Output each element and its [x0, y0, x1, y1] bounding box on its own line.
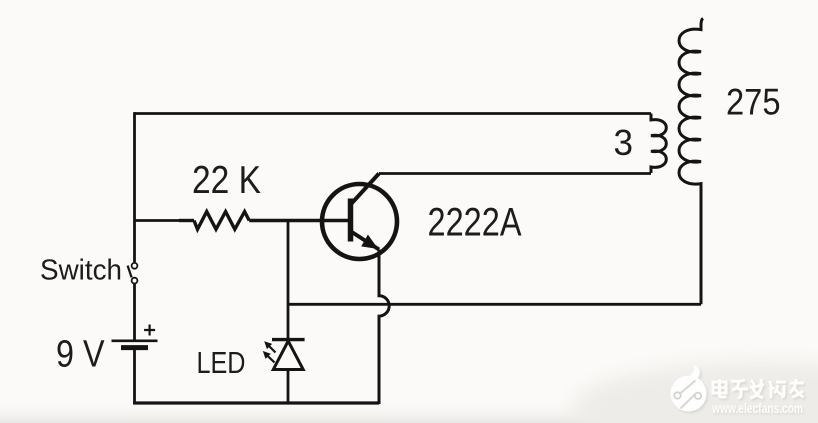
wire: resistor to transistor base: [249, 219, 348, 222]
svg-text:3: 3: [614, 122, 634, 163]
svg-text:Switch: Switch: [40, 254, 122, 286]
transistor collector diagonal: [352, 174, 380, 204]
LED cathode bar: [272, 338, 305, 341]
wire: LED branch vertical upper (base node down to LED): [287, 221, 290, 339]
transistor base bar: [348, 199, 354, 242]
svg-text:LED: LED: [197, 345, 246, 380]
LED triangle: [273, 341, 303, 370]
watermark text 电子发烧友 (approximated strokes): [713, 379, 806, 400]
resistor R1 22K zigzag: [194, 212, 249, 230]
switch contact circle top: [132, 263, 138, 269]
transformer primary coil (3 turns): [651, 114, 666, 174]
wire: base node to secondary coil bottom: [288, 303, 701, 306]
wire: base branch from left rail to resistor: [135, 219, 180, 222]
switch blade: [128, 266, 132, 278]
transformer secondary coil (275 turns): [679, 18, 703, 304]
transistor emitter arrowhead: [361, 235, 378, 250]
switch contact circle bottom: [132, 278, 138, 284]
wire: top rail from left rail to primary coil top: [135, 112, 652, 115]
wire: LED branch vertical lower (LED to bottom rail): [287, 370, 290, 403]
svg-text:275: 275: [726, 80, 781, 122]
wire: left rail battery to bottom rail: [133, 350, 136, 404]
LED emission arrow 2: [266, 354, 275, 362]
wire: left rail upper (top rail to switch): [133, 112, 136, 262]
svg-text:www.elecfans.com: www.elecfans.com: [711, 400, 803, 416]
wire: collector to primary coil bottom: [379, 172, 651, 175]
svg-text:2222A: 2222A: [428, 201, 522, 245]
wire: left rail between switch and battery: [133, 284, 136, 340]
transistor emitter diagonal: [351, 232, 379, 250]
battery negative plate: [121, 345, 148, 350]
transistor Q1 2222A: [322, 174, 397, 260]
battery positive plate: [112, 339, 158, 342]
svg-text:9 V: 9 V: [56, 334, 105, 376]
LED D1: [263, 340, 305, 370]
battery plus sign: [144, 325, 155, 336]
wire: emitter vertical with hop over node wire: [379, 250, 389, 405]
LED emission arrow 1: [268, 345, 276, 353]
transistor circle: [322, 184, 397, 259]
battery B1 9V: [112, 325, 158, 348]
svg-text:22 K: 22 K: [192, 159, 261, 202]
wire: bottom rail: [133, 401, 379, 404]
switch S1: [128, 263, 138, 284]
watermark logo elecfans: [671, 365, 709, 414]
